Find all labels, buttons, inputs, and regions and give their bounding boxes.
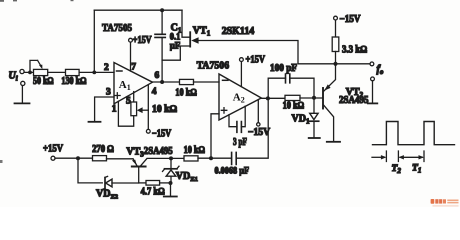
node junction rail (333, 62, 337, 66)
svg-text:130 kΩ: 130 kΩ (61, 76, 86, 87)
potentiometer 10k offset null (131, 102, 137, 116)
resistor 130k (66, 69, 80, 75)
wire left side of TA7505 box down to input node (93, 10, 95, 72)
wire A2 plus input branch (211, 114, 219, 158)
svg-text:+15V: +15V (133, 35, 152, 46)
svg-text:10 kΩ: 10 kΩ (152, 104, 177, 115)
resistor 10k A1-A2 (180, 79, 194, 84)
wire fo return to ground (372, 81, 374, 103)
capacitor C1 (155, 10, 165, 82)
node junction VDZ2 branch (76, 156, 80, 160)
svg-text:2SA495: 2SA495 (339, 95, 369, 106)
gate arrowhead of VT1 (191, 37, 198, 44)
svg-text:1: 1 (112, 105, 117, 115)
svg-text:−15V: −15V (152, 129, 172, 140)
wire gate line of VT1 to right and down to output rail (198, 41, 298, 64)
terminal +15V bottom (51, 156, 55, 160)
diode VD1 (309, 98, 319, 138)
terminal -15V A2 (257, 123, 260, 126)
plus sign A1 (115, 93, 121, 99)
svg-text:−15V: −15V (340, 14, 362, 25)
resistor 4.7k (146, 181, 160, 186)
svg-text:7: 7 (131, 63, 136, 73)
base lead of VT3 (138, 167, 140, 183)
svg-text:2: 2 (104, 63, 109, 73)
dimension arrow T2 left (372, 156, 385, 158)
wire A1 output (153, 81, 180, 83)
terminal Ui upper (20, 69, 24, 73)
terminal -15V top right (334, 16, 338, 20)
ground fo (368, 102, 377, 104)
zener diode VDZ1 (163, 158, 180, 196)
svg-text:0.0068 µF: 0.0068 µF (215, 166, 250, 176)
terminal +15V A1 (129, 38, 133, 42)
svg-text:6: 6 (155, 71, 160, 81)
svg-text:50 kΩ: 50 kΩ (33, 76, 54, 87)
ground VD1 (309, 137, 320, 139)
wire +15V to 270 (55, 157, 93, 159)
plus sign A2 (221, 108, 227, 114)
wire A2 output (261, 97, 285, 99)
scan remnant marks top edge (0, 0, 74, 163)
svg-text:270 Ω: 270 Ω (92, 144, 114, 155)
ground A1 plus input (89, 121, 101, 123)
wire top rail (feedback bus) (94, 9, 182, 11)
wire to VT2 base (300, 97, 322, 99)
transistor VT2 base bar (322, 88, 324, 109)
wire 270 to VT3 emitter (107, 158, 134, 160)
node A1 output junction (160, 80, 164, 84)
svg-text:3.3 kΩ: 3.3 kΩ (342, 44, 367, 55)
svg-text:4: 4 (152, 87, 157, 97)
wire pin7 stub (130, 42, 132, 71)
svg-text:TA7506: TA7506 (197, 60, 230, 72)
node junction A2 plus branch (209, 156, 213, 160)
wire pin5 stub (133, 92, 135, 102)
dimension arrows T1 (400, 156, 422, 158)
waveform tick marks (386, 151, 424, 162)
terminal fo return (371, 77, 375, 81)
node junction dot on top rail at C1 (160, 8, 164, 12)
svg-text:−15V: −15V (248, 127, 271, 138)
wire input line (24, 71, 114, 73)
label C1 value (170, 23, 182, 52)
collector of VT3 (141, 158, 184, 165)
wire pin4 down to -15V (147, 85, 149, 130)
terminal fo (370, 62, 374, 66)
wire A2 V+ stub (240, 62, 242, 87)
terminal Ui lower (21, 81, 25, 85)
wire A2 V- stub (257, 100, 259, 122)
svg-text:10 kΩ: 10 kΩ (283, 101, 305, 112)
svg-text:3: 3 (106, 88, 111, 98)
svg-text:µF: µF (170, 41, 181, 51)
svg-text:3 pF: 3 pF (233, 137, 247, 148)
terminal -15V A1 (146, 129, 150, 133)
ground VDZ1 (164, 196, 177, 198)
emitter of VT3 with arrow (133, 159, 137, 166)
node input junction at pot loop (28, 71, 32, 75)
wire rail to 4.7k (139, 182, 146, 184)
resistor 50k (34, 69, 48, 75)
svg-text:100 pF: 100 pF (270, 63, 297, 74)
capacitor 100pF feedback loop (268, 74, 314, 98)
watermark logo (431, 199, 459, 207)
op-amp A1 (114, 63, 153, 104)
minus sign A1 (117, 70, 123, 72)
resistor 10k bottom (184, 156, 198, 161)
svg-text:2SK114: 2SK114 (222, 26, 255, 37)
resistor 270 (93, 156, 107, 161)
svg-text:4.7 kΩ: 4.7 kΩ (141, 187, 165, 198)
node junction VDZ1 bottom (169, 181, 173, 185)
wire -15V to 3.3k (335, 20, 337, 37)
node junction VDZ1 top (169, 156, 173, 160)
wire cap to A2 output node (236, 98, 268, 158)
wire pin1 loop to pot (118, 101, 133, 126)
wire output rail (298, 63, 370, 65)
wire source stub and drop to A1 output (162, 46, 189, 60)
wire 4.7k to VDZ1 (160, 182, 171, 184)
wire 3.3k to rail (335, 52, 337, 64)
node junction VD1 base (312, 96, 316, 100)
wire 10k to A2 inverting input (194, 81, 220, 83)
potentiometer 50k wiper loop (30, 60, 41, 72)
node A2 output junction (266, 96, 270, 100)
svg-text:10 kΩ: 10 kΩ (184, 145, 206, 156)
zener diode VDZ2 (102, 176, 138, 189)
transistor VT3 base bar (132, 166, 146, 168)
svg-text:TA7505: TA7505 (102, 22, 132, 34)
wire VDZ2 branch down (78, 158, 102, 183)
minus sign A2 (223, 79, 229, 81)
op-amp A2 (219, 74, 261, 120)
resistor 3.3k (332, 37, 339, 52)
wire drain stub and drop (182, 10, 190, 37)
node junction at A1 inverting input (92, 71, 96, 75)
waveform square wave (373, 122, 455, 145)
wire to input ground (21, 86, 23, 104)
wiper arrow of 10k pot (142, 109, 148, 111)
wire 10k to cap (198, 157, 231, 159)
terminal +15V A2 (240, 58, 244, 62)
svg-text:+15V: +15V (246, 54, 266, 65)
wire pin3 to ground (95, 97, 114, 121)
svg-text:+15V: +15V (43, 143, 64, 154)
capacitor 3pF compensation (229, 106, 245, 132)
capacitor 0.0068uF (232, 152, 237, 164)
ground VT2 (327, 141, 340, 143)
resistor 10k A2 output (285, 95, 300, 100)
ground input (15, 102, 30, 104)
svg-text:2SA495: 2SA495 (144, 146, 173, 157)
svg-text:10 kΩ: 10 kΩ (175, 87, 197, 98)
collector of VT2 (324, 105, 334, 141)
emitter of VT2 with arrow (324, 64, 336, 91)
transistor VT1 2SK114 FET channel bar (189, 32, 191, 46)
